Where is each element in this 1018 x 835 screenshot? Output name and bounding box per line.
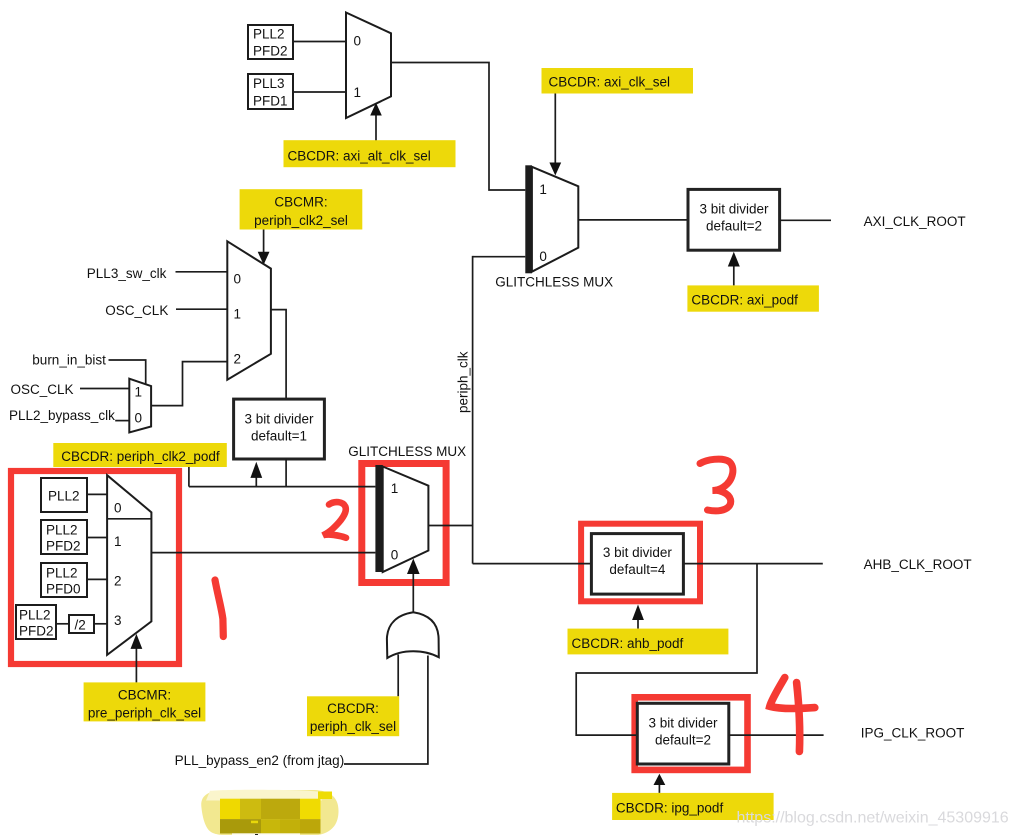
svg-text:0: 0 bbox=[354, 34, 362, 49]
wire divider output down bbox=[285, 459, 287, 487]
divider box axi (3 bit divider default=2) bbox=[688, 189, 780, 250]
annotation red rectangle 3 (ahb divider highlight) bbox=[581, 524, 700, 602]
label CBCDR: axi_alt_clk_sel bbox=[284, 140, 456, 167]
label CBCMR: pre_periph_clk_sel bbox=[84, 682, 206, 721]
box PLL2 bbox=[41, 478, 87, 512]
box PLL2 PFD2 (mid) bbox=[41, 520, 87, 554]
svg-text:default=1: default=1 bbox=[251, 428, 307, 443]
svg-text:PFD2: PFD2 bbox=[19, 624, 54, 639]
wire periph_clk into glitchless mux1 input 0 bbox=[473, 256, 526, 258]
svg-text:https://blog.csdn.net/weixin_4: https://blog.csdn.net/weixin_45309916 bbox=[737, 810, 1009, 827]
svg-text:3 bit divider: 3 bit divider bbox=[648, 716, 718, 731]
svg-text:PLL_bypass_en2 (from jtag): PLL_bypass_en2 (from jtag) bbox=[175, 753, 345, 768]
wire axi divider output bbox=[780, 219, 831, 221]
svg-text:PLL2: PLL2 bbox=[46, 523, 78, 538]
svg-text:1: 1 bbox=[114, 534, 122, 549]
arrow OR gate output into glitchless mux 2 bbox=[407, 559, 420, 613]
svg-text:periph_clk: periph_clk bbox=[456, 351, 471, 413]
svg-text:1: 1 bbox=[391, 481, 399, 496]
annotation red digit 2 bbox=[323, 502, 346, 538]
label CBCDR: ahb_podf bbox=[568, 629, 729, 655]
select arrow into periph_clk2 mux bbox=[258, 230, 270, 265]
svg-text:PFD1: PFD1 bbox=[253, 94, 288, 109]
annotation red digit 4 bbox=[770, 678, 815, 752]
svg-text:PFD0: PFD0 bbox=[46, 582, 81, 597]
svg-text:0: 0 bbox=[114, 500, 122, 515]
svg-text:3 bit divider: 3 bit divider bbox=[699, 202, 769, 217]
arrow periph_clk2_podf into divider bottom bbox=[250, 462, 262, 487]
box PLL2 PFD2 (top) bbox=[248, 25, 293, 59]
label CBCDR: ipg_podf bbox=[612, 793, 774, 820]
svg-text:OSC_CLK: OSC_CLK bbox=[11, 382, 74, 397]
wire mux1 output to axi divider bbox=[578, 219, 688, 221]
wire PLL3_sw_clk to input 0 bbox=[176, 271, 228, 273]
svg-text:CBCDR:: CBCDR: bbox=[327, 701, 379, 716]
wire glitchless mux 2 output to periph_clk bbox=[428, 525, 472, 527]
mux axi_alt_clk (inputs 0,1) bbox=[346, 13, 391, 119]
svg-text:CBCDR: periph_clk2_podf: CBCDR: periph_clk2_podf bbox=[61, 449, 220, 464]
annotation red digit 3 bbox=[700, 459, 733, 511]
svg-text:periph_clk_sel: periph_clk_sel bbox=[310, 719, 396, 734]
annotation red rectangle 4 (ipg divider highlight) bbox=[635, 697, 748, 770]
wire OSC_CLK to small mux input 1 bbox=[80, 388, 129, 390]
svg-text:CBCMR:: CBCMR: bbox=[274, 195, 327, 210]
OR gate periph_clk_sel/bypass bbox=[387, 612, 439, 658]
svg-text:0: 0 bbox=[234, 272, 242, 287]
svg-text:GLITCHLESS MUX: GLITCHLESS MUX bbox=[495, 275, 613, 290]
wire burn_in_bist to small mux select bbox=[109, 360, 146, 385]
svg-text:pre_periph_clk_sel: pre_periph_clk_sel bbox=[88, 706, 201, 721]
wire PLL2PFD2 to axi_alt mux input 0 bbox=[293, 41, 346, 43]
divider box ipg (3 bit divider default=2) bbox=[637, 703, 729, 764]
svg-text:3: 3 bbox=[114, 613, 122, 628]
svg-text:burn_in_bist: burn_in_bist bbox=[32, 352, 106, 367]
svg-text:periph_clk2_sel: periph_clk2_sel bbox=[254, 213, 348, 228]
wire PLL3PFD1 to axi_alt mux input 1 bbox=[293, 91, 346, 93]
box PLL3 PFD1 bbox=[248, 74, 293, 109]
svg-text:1: 1 bbox=[234, 307, 242, 322]
wire /2 to input 3 bbox=[94, 623, 107, 625]
label CBCMR: periph_clk2_sel bbox=[240, 189, 363, 229]
svg-text:default=2: default=2 bbox=[655, 733, 711, 748]
svg-text:3 bit divider: 3 bit divider bbox=[244, 411, 314, 426]
svg-text:PLL3: PLL3 bbox=[253, 76, 285, 91]
svg-text:PFD2: PFD2 bbox=[253, 44, 288, 59]
wire PLL2PFD0 to input 2 bbox=[87, 578, 107, 580]
wire ipg divider output bbox=[729, 734, 824, 736]
svg-text:IPG_CLK_ROOT: IPG_CLK_ROOT bbox=[861, 725, 965, 740]
wire horizontal to glitchless mux 2 input 1 bbox=[189, 486, 376, 488]
svg-text:CBCMR:: CBCMR: bbox=[118, 688, 171, 703]
wire axi_alt mux output elbow to glitchless mux 1 input 1 bbox=[391, 63, 525, 191]
wire AHB divider output bbox=[683, 563, 822, 565]
wire pre_periph mux output to glitchless mux 2 input 0 bbox=[151, 552, 375, 554]
label CBCDR: periph_clk2_podf bbox=[53, 443, 227, 467]
label CBCDR: axi_clk_sel bbox=[542, 68, 694, 94]
label CBCDR: axi_podf bbox=[687, 285, 819, 311]
svg-text:PLL2: PLL2 bbox=[19, 608, 51, 623]
annotation yellow highlighter blob bbox=[201, 790, 338, 835]
glitchless mux 2 (periph) bbox=[375, 465, 428, 572]
arrow axi_podf into divider bbox=[728, 252, 740, 286]
svg-text:CBCDR: ipg_podf: CBCDR: ipg_podf bbox=[616, 801, 724, 816]
wire periph_clk vertical bbox=[472, 256, 474, 564]
svg-text:PLL3_sw_clk: PLL3_sw_clk bbox=[87, 266, 167, 281]
annotation red digit 1 bbox=[215, 580, 223, 637]
svg-text:CBCDR: axi_clk_sel: CBCDR: axi_clk_sel bbox=[549, 75, 671, 90]
wire PLL2_bypass_clk to small mux input 0 bbox=[115, 420, 129, 422]
annotation red rectangle 1 (pre_periph mux highlight) bbox=[11, 471, 179, 664]
svg-text:0: 0 bbox=[391, 547, 399, 562]
wire PFD2 to /2 bbox=[56, 623, 69, 625]
divider box periph_clk2 (3 bit divider default=1) bbox=[234, 399, 325, 459]
mux burn_in_bist (inputs 1,0) bbox=[129, 379, 151, 433]
wire PLL2PFD2 to input 1 bbox=[87, 537, 107, 539]
svg-text:AXI_CLK_ROOT: AXI_CLK_ROOT bbox=[864, 214, 966, 229]
wire OSC_CLK to input 1 bbox=[176, 308, 227, 310]
svg-text:1: 1 bbox=[354, 85, 362, 100]
svg-text:/2: /2 bbox=[75, 618, 86, 633]
label CBCDR: periph_clk_sel bbox=[307, 696, 399, 736]
select arrow into axi_alt mux bbox=[370, 103, 382, 141]
select arrow into glitchless mux 1 bbox=[549, 94, 561, 176]
svg-text:PLL2_bypass_clk: PLL2_bypass_clk bbox=[9, 408, 115, 423]
wire PLL2 to pre_periph mux input 0 bbox=[87, 493, 107, 495]
wire periph_clk2 mux output to divider bbox=[271, 310, 286, 400]
svg-text:default=4: default=4 bbox=[609, 562, 665, 577]
box PLL2 PFD0 bbox=[41, 563, 87, 597]
svg-text:default=2: default=2 bbox=[706, 219, 762, 234]
svg-text:CBCDR: axi_podf: CBCDR: axi_podf bbox=[691, 293, 798, 308]
annotation red rectangle 2 (glitchless mux highlight) bbox=[362, 464, 446, 583]
svg-text:CBCDR: ahb_podf: CBCDR: ahb_podf bbox=[572, 636, 684, 651]
svg-text:AHB_CLK_ROOT: AHB_CLK_ROOT bbox=[864, 557, 972, 572]
wire OR gate right input from PLL_bypass_en2 bbox=[344, 656, 428, 765]
svg-text:PLL2: PLL2 bbox=[253, 27, 285, 42]
divider box ahb (3 bit divider default=4) bbox=[591, 534, 683, 595]
svg-text:OSC_CLK: OSC_CLK bbox=[105, 303, 168, 318]
svg-text:PFD2: PFD2 bbox=[46, 539, 81, 554]
arrow ipg_podf into divider bbox=[654, 774, 666, 793]
box PLL2 PFD2 (bottom left) bbox=[16, 605, 56, 639]
mux pre_periph_clk_sel (inputs 0,1,2,3) bbox=[107, 475, 151, 655]
svg-text:GLITCHLESS MUX: GLITCHLESS MUX bbox=[348, 444, 466, 459]
svg-text:0: 0 bbox=[539, 249, 547, 264]
arrow ahb_podf into divider bbox=[632, 605, 644, 629]
arrow pre_periph_clk_sel into mux bbox=[131, 634, 143, 683]
svg-text:1: 1 bbox=[135, 385, 143, 400]
svg-text:PLL2: PLL2 bbox=[48, 489, 80, 504]
svg-text:2: 2 bbox=[234, 352, 242, 367]
svg-text:CBCDR: axi_alt_clk_sel: CBCDR: axi_alt_clk_sel bbox=[288, 149, 431, 164]
wire label drop periph_clk2_podf bbox=[188, 467, 190, 487]
mux periph_clk2_sel (inputs 0,1,2) bbox=[227, 241, 271, 379]
wire branch down to IPG row bbox=[576, 564, 757, 736]
glitchless mux 1 (AXI) bbox=[525, 165, 578, 273]
svg-text:3 bit divider: 3 bit divider bbox=[603, 545, 673, 560]
svg-text:2: 2 bbox=[114, 573, 122, 588]
box divide-by-2 (/2) bbox=[69, 615, 94, 633]
wire OR gate left input from periph_clk_sel label bbox=[397, 655, 399, 697]
wire AHB trunk into divider bbox=[473, 563, 592, 565]
svg-text:0: 0 bbox=[135, 411, 143, 426]
svg-text:1: 1 bbox=[539, 182, 547, 197]
svg-text:PLL2: PLL2 bbox=[46, 566, 78, 581]
wire small mux output to input 2 elbow bbox=[151, 362, 227, 406]
